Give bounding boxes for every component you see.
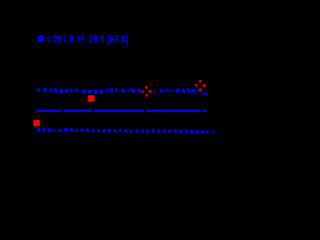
svg-text:Φ = 267.8 +/- 28.5 (68.8): Φ = 267.8 +/- 28.5 (68.8) <box>37 33 129 45</box>
title text <box>38 35 44 42</box>
red dotted circle marker 1 <box>141 86 151 97</box>
marker row 2 (small blue squares) <box>37 128 215 134</box>
red dotted circle marker 2 <box>195 80 206 91</box>
marker row 1 (blue squares and triangles) <box>37 88 209 96</box>
red asterisk marker B <box>33 120 40 127</box>
red asterisk marker A <box>88 95 95 102</box>
blue dashed line <box>36 109 207 112</box>
